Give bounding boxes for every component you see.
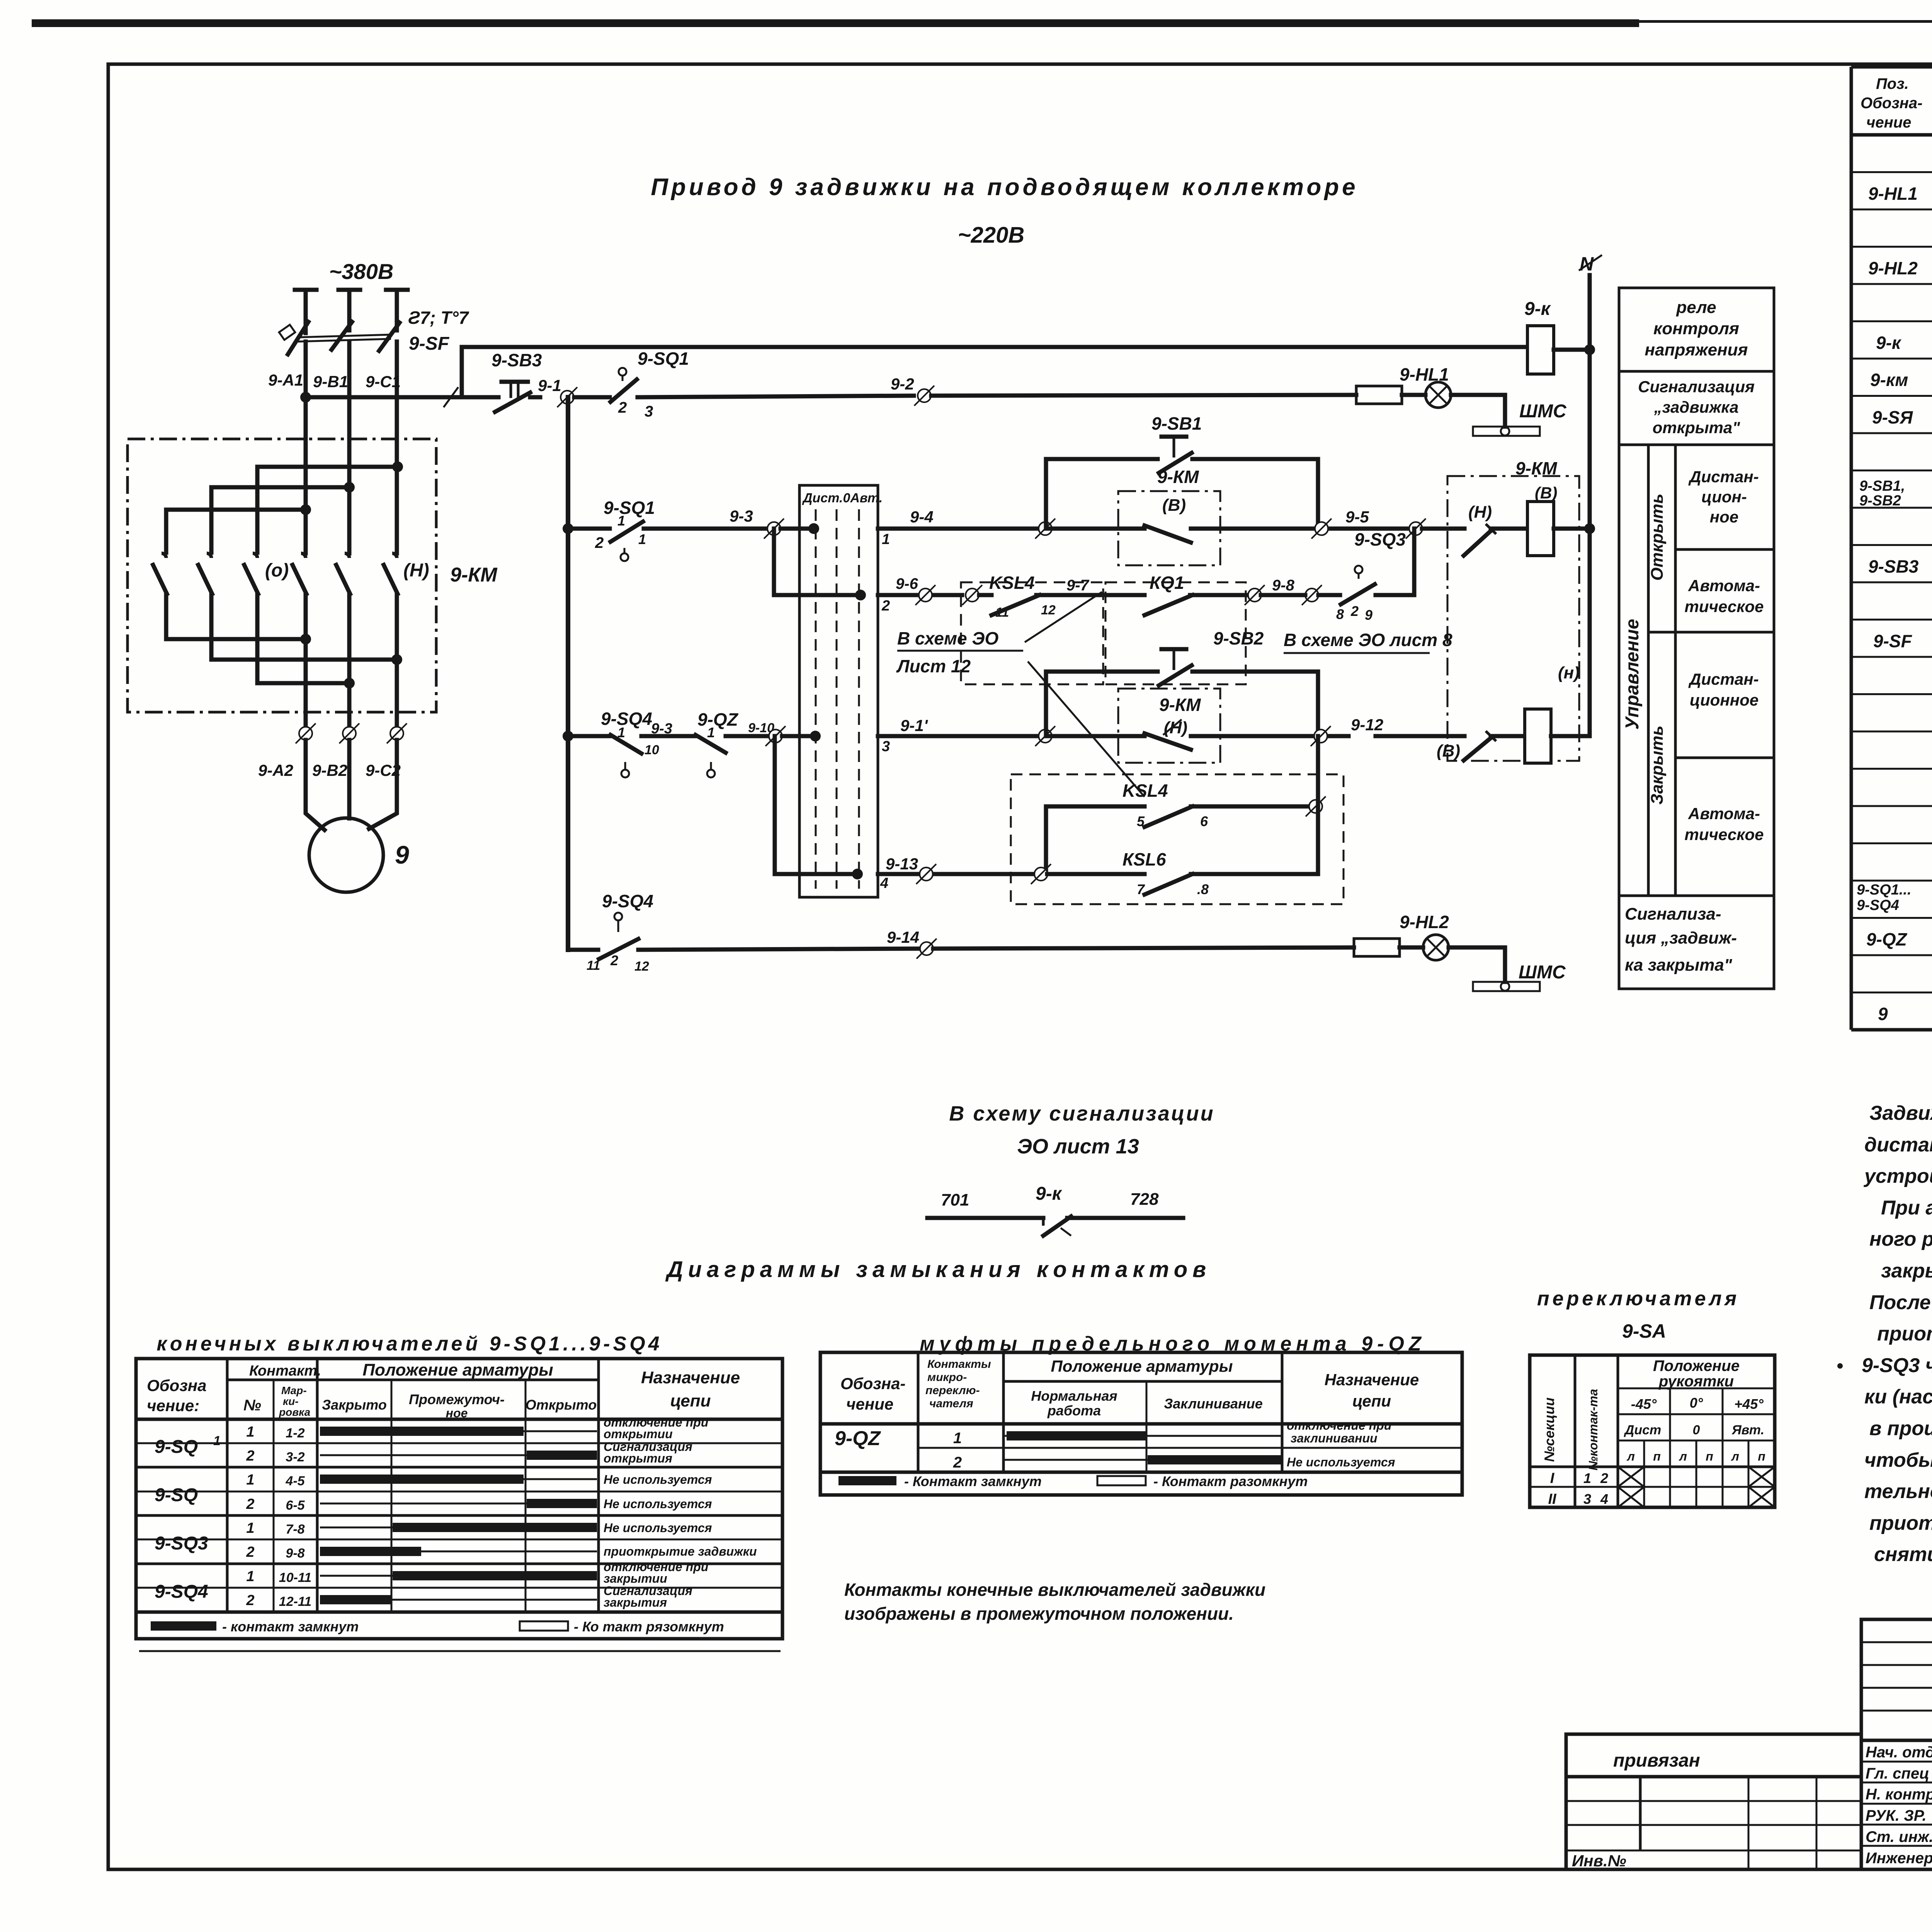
svg-text:9-В1: 9-В1 [313, 372, 348, 391]
svg-text:открыта": открыта" [1653, 418, 1741, 437]
svg-text:2: 2 [246, 1448, 254, 1464]
svg-text:конечных выключателей 9-SQ1..: конечных выключателей 9-SQ1...9-SQ4 [156, 1333, 662, 1355]
wire phase B below breaker [347, 342, 352, 553]
closed-contact bars [320, 1427, 524, 1436]
svg-text:л: л [1679, 1449, 1687, 1463]
wire 9-SB1 bypass top [1046, 457, 1158, 461]
svg-text:ки-: ки- [283, 1395, 299, 1407]
svg-text:1-2: 1-2 [286, 1426, 304, 1440]
svg-text:9-А2: 9-А2 [258, 761, 293, 779]
svg-text:9-7: 9-7 [1066, 577, 1090, 594]
svg-text:- контакт замкнут: - контакт замкнут [222, 1619, 359, 1634]
svg-text:После откачки стоков из пр: После откачки стоков из приемного резерв… [1869, 1291, 1932, 1314]
svg-text:9-1: 9-1 [538, 376, 561, 395]
svg-text:ШМС: ШМС [1519, 962, 1566, 983]
svg-text:9-SQ: 9-SQ [155, 1437, 198, 1457]
svg-text:Контакт.: Контакт. [249, 1363, 321, 1379]
svg-text:9-к: 9-к [1876, 333, 1902, 353]
svg-text:№контак-та: №контак-та [1586, 1389, 1600, 1470]
svg-text:КSL6: КSL6 [1122, 849, 1166, 869]
svg-text:чение: чение [1866, 114, 1911, 131]
svg-text:Заклинивание: Заклинивание [1164, 1396, 1262, 1412]
svg-text:заклинивании: заклинивании [1291, 1431, 1378, 1445]
svg-text:Явт.: Явт. [1731, 1423, 1764, 1437]
svg-text:9-1': 9-1' [900, 716, 929, 735]
contactor 9-KM contacts (o) and (N) [162, 553, 166, 558]
svg-text:п: п [1706, 1449, 1713, 1463]
ballast resistor for 9-HL2 [1354, 939, 1400, 956]
wire (o)-pole1 bottom to phase A [166, 594, 306, 639]
svg-text:чение:: чение: [147, 1396, 199, 1415]
wire (o)-pole3 bottom to phase B [257, 594, 349, 683]
legend closed/open [151, 1621, 216, 1631]
selector switch 9-SA box [799, 485, 878, 897]
svg-text:2: 2 [595, 534, 604, 551]
svg-text:в процессе наладки и экспл: в процессе наладки и эксплуатации таким … [1869, 1417, 1932, 1440]
svg-text:- Ко такт рязомкнут: - Ко такт рязомкнут [574, 1619, 724, 1634]
svg-text:Промежуточ-: Промежуточ- [409, 1391, 505, 1407]
svg-text:микро-: микро- [927, 1371, 967, 1384]
svg-text:701: 701 [941, 1190, 969, 1209]
svg-text:№: № [243, 1397, 261, 1414]
motor 9 [309, 818, 383, 892]
svg-text:9-SQ4: 9-SQ4 [1857, 897, 1899, 913]
svg-text:„задвижка: „задвижка [1654, 398, 1739, 416]
svg-text:II: II [1548, 1491, 1557, 1507]
wire row3 [568, 734, 610, 738]
svg-text:привязан: привязан [1613, 1750, 1700, 1771]
svg-text:9-КМ: 9-КМ [1157, 467, 1199, 487]
svg-text:9-SQ4: 9-SQ4 [601, 709, 652, 729]
svg-text:Закрыто: Закрыто [322, 1397, 387, 1413]
svg-text:(о): (о) [265, 560, 289, 581]
svg-text:7-8: 7-8 [286, 1522, 304, 1537]
svg-text:2: 2 [246, 1592, 254, 1609]
svg-text:контроля: контроля [1653, 319, 1739, 338]
svg-text:Контакты конечные выключател: Контакты конечные выключателей задвижки [844, 1580, 1265, 1600]
svg-text:1: 1 [707, 724, 715, 740]
wire phase A through (N)-pole [304, 594, 308, 733]
svg-text:Гл. спец: Гл. спец [1866, 1765, 1929, 1782]
svg-text:9-SЯ: 9-SЯ [1872, 407, 1913, 427]
contactor block 9-KM dash-dot box [1447, 476, 1579, 761]
wire riser right KSL4 [1316, 736, 1320, 874]
svg-text:9-А1: 9-А1 [268, 371, 303, 389]
svg-text:цепи: цепи [1352, 1392, 1391, 1410]
svg-text:При автоматическом управлени: При автоматическом управлении вслучае пе… [1881, 1197, 1932, 1219]
svg-text:цепи: цепи [670, 1391, 711, 1410]
node junction A top [300, 504, 311, 515]
svg-text:ное: ное [1710, 508, 1738, 526]
svg-text:1: 1 [246, 1568, 254, 1585]
wire row5 (9-14) [568, 948, 598, 952]
svg-text:2: 2 [1350, 603, 1359, 619]
svg-text:9-2: 9-2 [891, 375, 914, 393]
svg-text:Дист: Дист [1624, 1423, 1661, 1437]
svg-text:рукоятки: рукоятки [1658, 1373, 1734, 1390]
svg-text:9-к: 9-к [1524, 299, 1551, 319]
svg-text:~220В: ~220В [958, 223, 1025, 248]
svg-text:приоткрытие задвижки: приоткрытие задвижки [604, 1544, 757, 1558]
svg-text:N: N [1580, 253, 1594, 275]
svg-text:9-SQ3: 9-SQ3 [155, 1533, 208, 1554]
limit switch diagram table [136, 1359, 782, 1639]
node 9-SA contact IV [852, 869, 863, 879]
wire riser row2 to row1 [1412, 529, 1417, 595]
svg-text:Назначение: Назначение [641, 1368, 740, 1387]
wire phase C below breaker [395, 342, 399, 553]
leader lines [1025, 592, 1102, 642]
svg-text:12: 12 [634, 959, 649, 974]
wire rail to relay 9-K [462, 345, 1527, 349]
svg-text:9-НL2: 9-НL2 [1400, 912, 1449, 932]
svg-text:тическое: тическое [1684, 597, 1764, 616]
svg-text:ровка: ровка [279, 1406, 310, 1418]
svg-text:9-12: 9-12 [1351, 716, 1383, 734]
svg-text:9-SF: 9-SF [1873, 631, 1913, 651]
svg-text:Закрыть: Закрыть [1648, 726, 1667, 805]
wire drop row3 to row4 [773, 736, 777, 874]
svg-text:отключение при: отключение при [1287, 1418, 1391, 1432]
svg-text:9-3: 9-3 [651, 721, 672, 737]
wire row1 through aux contact [1050, 527, 1145, 531]
svg-text:9-SB3: 9-SB3 [1868, 556, 1919, 577]
svg-text:1: 1 [213, 1434, 221, 1448]
svg-text:реле: реле [1676, 298, 1716, 317]
svg-text:0°: 0° [1690, 1395, 1703, 1411]
wire jumper C to (o)-pole3 [257, 467, 399, 553]
svg-text:2: 2 [618, 399, 627, 416]
svg-text:дистанционное с помощью кно: дистанционное с помощью кнопок 9-SВ1...9… [1864, 1134, 1932, 1156]
svg-text:1: 1 [246, 1424, 254, 1440]
svg-text:9-В2: 9-В2 [312, 761, 347, 779]
svg-text:.8: .8 [1197, 881, 1209, 897]
node 9-SA contact II [855, 590, 866, 600]
svg-text:9-SQ3: 9-SQ3 [1354, 529, 1406, 549]
svg-text:3-2: 3-2 [286, 1450, 304, 1464]
svg-text:1: 1 [246, 1520, 254, 1536]
svg-text:Назначение: Назначение [1325, 1371, 1419, 1389]
wire jumper B to (o)-pole2 [211, 487, 351, 553]
svg-text:чателя: чателя [929, 1397, 973, 1410]
wire (o)-pole2 bottom to phase C [211, 594, 397, 660]
svg-text:KSL4: KSL4 [1122, 781, 1168, 801]
svg-text:Сигнализа-: Сигнализа- [1625, 905, 1721, 923]
svg-text:9-SB3: 9-SB3 [492, 350, 542, 370]
svg-text:9-к: 9-к [1036, 1184, 1063, 1204]
svg-text:6: 6 [1200, 813, 1208, 829]
svg-text:9-SQ1...: 9-SQ1... [1857, 882, 1912, 898]
svg-text:2: 2 [953, 1454, 962, 1471]
svg-text:Диаграммы замыкания кон: Диаграммы замыкания контактов [665, 1257, 1211, 1282]
svg-text:-45°: -45° [1631, 1396, 1657, 1412]
svg-text:9-8: 9-8 [1272, 577, 1295, 594]
svg-text:п: п [1653, 1449, 1661, 1463]
svg-text:11: 11 [587, 958, 600, 973]
node row1 tap [563, 523, 573, 534]
cable marker 9-1 [557, 387, 577, 407]
svg-text:Дистан-: Дистан- [1688, 468, 1759, 486]
svg-text:1: 1 [246, 1472, 254, 1488]
breaker 9-SF [288, 322, 308, 354]
svg-text:9-SB1: 9-SB1 [1151, 413, 1202, 434]
svg-text:Привод 9 задвижки на подводя: Привод 9 задвижки на подводящем коллекто… [651, 174, 1358, 201]
wire 9-SB2 bypass riser right [1316, 672, 1320, 736]
svg-text:1: 1 [882, 531, 890, 548]
svg-text:9: 9 [1365, 607, 1372, 623]
wire 9-SB2 bypass top [1046, 670, 1158, 674]
svg-text:9-км: 9-км [1870, 370, 1908, 390]
node 9-SA contact I [808, 523, 819, 534]
cable markers 9-A2 9-B2 9-C2 [296, 723, 316, 743]
svg-text:ки (настройка конечного выкл: ки (настройка конечного выключателя 9-SQ… [1864, 1386, 1932, 1408]
wire control bus [566, 397, 570, 950]
wire row1 [568, 527, 610, 531]
svg-text:устройства и автоматическо: устройства и автоматическое. [1863, 1165, 1932, 1187]
svg-text:ЭО лист 13: ЭО лист 13 [1017, 1135, 1139, 1158]
svg-text:ного резервуара или затопле: ного резервуара или затоплении машзала з… [1869, 1228, 1932, 1250]
svg-text:ка закрыта": ка закрыта" [1625, 956, 1733, 975]
relay contacts KSL4/KSL6 box [1011, 774, 1344, 904]
svg-text:9-SB1,: 9-SB1, [1859, 478, 1905, 494]
svg-text:Ƨ7; Т°7: Ƨ7; Т°7 [408, 308, 469, 328]
svg-text:2: 2 [246, 1496, 254, 1512]
svg-text:9-HL2: 9-HL2 [1868, 258, 1918, 278]
svg-text:закрывается.: закрывается. [1881, 1260, 1932, 1282]
svg-text:Н. контр: Н. контр [1866, 1786, 1932, 1803]
svg-text:9-8: 9-8 [286, 1546, 304, 1561]
wire row3 through aux contact [1050, 734, 1145, 738]
svg-text:Обозна: Обозна [147, 1376, 207, 1395]
wire 9-SB2 bypass riser left [1044, 672, 1048, 736]
svg-text:2: 2 [246, 1544, 254, 1560]
svg-text:л: л [1626, 1449, 1635, 1463]
svg-text:ное: ное [446, 1406, 468, 1420]
svg-text:3: 3 [882, 738, 890, 755]
svg-text:(В): (В) [1162, 496, 1186, 515]
svg-text:Не используется: Не используется [604, 1473, 712, 1486]
svg-text:Не используется: Не используется [604, 1497, 712, 1511]
svg-text:1: 1 [638, 531, 646, 547]
svg-text:(Н): (Н) [1468, 503, 1492, 522]
pushbutton 9-SB2 [1162, 647, 1186, 651]
svg-text:- Контакт замкнут: - Контакт замкнут [904, 1473, 1042, 1489]
svg-text:9-SQ: 9-SQ [155, 1485, 198, 1505]
svg-text:тельности одного насоса. В: тельности одного насоса. В случае затопл… [1864, 1480, 1932, 1503]
wire KSL4 branch [1044, 806, 1048, 874]
svg-text:9-6: 9-6 [896, 575, 918, 592]
svg-text:цион-: цион- [1701, 488, 1747, 506]
svg-text:№секции: №секции [1541, 1398, 1557, 1462]
svg-text:Не используется: Не используется [604, 1521, 712, 1535]
svg-text:Дист.0Авт.: Дист.0Авт. [802, 491, 883, 505]
title block [1861, 1619, 1932, 1869]
wire to limit switch [574, 395, 610, 400]
svg-text:2: 2 [610, 952, 618, 968]
svg-text:~380В: ~380В [329, 259, 394, 284]
svg-text:ШМС: ШМС [1519, 401, 1567, 422]
svg-text:4-5: 4-5 [285, 1474, 305, 1488]
svg-text:переклю-: переклю- [925, 1384, 980, 1397]
svg-text:9-SQ1: 9-SQ1 [638, 349, 689, 369]
svg-text:В схему сигнализации: В схему сигнализации [949, 1102, 1214, 1125]
svg-text:(н): (н) [1558, 663, 1580, 682]
svg-text:8: 8 [1336, 606, 1344, 622]
node feed junction on phase A [300, 392, 311, 403]
svg-text:10-11: 10-11 [279, 1570, 311, 1585]
svg-text:изображены в промежуточном п: изображены в промежуточном положении. [844, 1604, 1234, 1624]
svg-text:работа: работа [1047, 1403, 1101, 1418]
svg-text:9-КМ: 9-КМ [1159, 695, 1201, 715]
node junction B top [344, 482, 355, 493]
wire motor leads [306, 740, 325, 830]
svg-text:2: 2 [1600, 1470, 1608, 1486]
svg-text:9-SQ3 частично открывается.: 9-SQ3 частично открывается. Величина при… [1862, 1354, 1932, 1377]
svg-text:1: 1 [1583, 1470, 1591, 1486]
wire phase A below breaker [304, 342, 308, 553]
contactor 9-KM power block outline [128, 439, 436, 712]
svg-text:0: 0 [1693, 1423, 1700, 1437]
svg-text:Лист 12: Лист 12 [896, 656, 971, 676]
svg-text:9: 9 [1878, 1004, 1888, 1024]
svg-text:Положение арматуры: Положение арматуры [1051, 1357, 1233, 1375]
svg-text:2: 2 [881, 598, 890, 614]
node N junction [1584, 344, 1595, 355]
PARTS LIST TABLE [1851, 67, 1932, 1030]
node junction C bottom [391, 654, 402, 665]
svg-text:9-SQ4: 9-SQ4 [602, 891, 653, 911]
node row3 tap [563, 731, 573, 742]
wire coil to N [1554, 348, 1590, 352]
svg-text:7: 7 [1137, 881, 1145, 897]
relay contact KQ1 box [1105, 582, 1246, 684]
svg-text:9-13: 9-13 [886, 855, 918, 873]
wire jumper A to (o)-pole1 [166, 510, 306, 553]
svg-text:Автома-: Автома- [1688, 577, 1760, 595]
svg-text:9: 9 [395, 840, 409, 869]
node junction C top [392, 461, 403, 472]
node N row1 [1584, 523, 1595, 534]
svg-text:(Н): (Н) [403, 560, 429, 581]
svg-text:чение: чение [846, 1395, 893, 1413]
svg-text:9-4: 9-4 [910, 508, 934, 526]
svg-text:9-SQ1: 9-SQ1 [604, 498, 655, 518]
svg-text:5: 5 [1137, 813, 1145, 829]
svg-text:чтобы обеспечить приток сто: чтобы обеспечить приток стоков в количес… [1864, 1449, 1932, 1471]
svg-text:открытия: открытия [604, 1451, 672, 1465]
svg-text:В схеме ЭО: В схеме ЭО [897, 628, 998, 648]
wire N line [1588, 275, 1592, 736]
svg-text:п: п [1758, 1449, 1765, 1463]
wire 9-SB1 bypass riser left [1044, 459, 1048, 529]
svg-text:6-5: 6-5 [286, 1498, 305, 1513]
svg-text:открытии: открытии [604, 1427, 673, 1441]
wire lamp to SHMS bus [1451, 395, 1505, 427]
svg-text:снятии блокировки.: снятии блокировки. [1874, 1543, 1932, 1566]
node bypass rejoin [1318, 527, 1406, 531]
svg-text:РУК. ЗР.: РУК. ЗР. [1866, 1807, 1927, 1824]
svg-text:Положение арматуры: Положение арматуры [362, 1361, 553, 1379]
svg-text:12-11: 12-11 [279, 1594, 311, 1609]
svg-text:Нормальная: Нормальная [1031, 1388, 1117, 1404]
node junction B bottom [344, 678, 355, 689]
svg-text:3: 3 [1583, 1491, 1591, 1507]
svg-text:3: 3 [645, 403, 653, 420]
auxiliary contact 9-KM (B) box [1118, 491, 1220, 565]
svg-text:Управление: Управление [1622, 619, 1643, 730]
svg-text:Открыто: Открыто [526, 1397, 597, 1413]
wire lamp to lower SHMS bus [1449, 947, 1505, 982]
svg-text:9-5: 9-5 [1345, 508, 1369, 526]
svg-text:9-QZ: 9-QZ [697, 709, 739, 730]
svg-text:4: 4 [1600, 1491, 1608, 1507]
svg-text:Поз.: Поз. [1876, 75, 1909, 92]
svg-text:1: 1 [953, 1430, 962, 1447]
auxiliary contact 9-KM (N) box [1118, 689, 1220, 763]
svg-text:приоткрытие задвижки возм: приоткрытие задвижки возможно только при [1869, 1512, 1932, 1534]
wire main feed [306, 395, 498, 400]
svg-text:Задвижка имеет два вида управл: Задвижка имеет два вида управления, выби… [1869, 1102, 1932, 1124]
svg-text:KSL4: KSL4 [989, 573, 1035, 593]
svg-text:Инженер: Инженер [1866, 1850, 1932, 1867]
svg-text:Не используется: Не используется [1287, 1455, 1395, 1469]
svg-text:12: 12 [1041, 603, 1056, 617]
wire phase B through (N)-pole [347, 594, 352, 733]
svg-text:9-QZ: 9-QZ [835, 1427, 881, 1450]
svg-text:Контакты: Контакты [927, 1358, 991, 1371]
relay contact KSL4 (11-12) box [961, 582, 1103, 684]
svg-text:9-КМ: 9-КМ [450, 564, 498, 586]
node 9-SA contact III [810, 731, 821, 742]
svg-text:ция „задвиж-: ция „задвиж- [1625, 929, 1737, 947]
svg-text:1: 1 [617, 513, 625, 529]
ballast resistor for 9-HL1 [1356, 386, 1402, 404]
svg-text:+45°: +45° [1734, 1396, 1764, 1412]
wire 9-SB1 bypass riser right [1316, 459, 1320, 529]
svg-text:Дистан-: Дистан- [1688, 670, 1759, 688]
svg-text:728: 728 [1130, 1190, 1159, 1209]
wire phase C through (N)-pole [395, 594, 399, 733]
svg-text:В схеме ЭО лист 8: В схеме ЭО лист 8 [1284, 630, 1452, 650]
svg-text:Мар-: Мар- [281, 1384, 307, 1396]
svg-text:тическое: тическое [1684, 825, 1764, 844]
svg-text:9-HL1: 9-HL1 [1868, 184, 1918, 204]
svg-text:I: I [1550, 1470, 1555, 1486]
svg-text:(Н): (Н) [1164, 718, 1187, 737]
svg-text:9-С1: 9-С1 [366, 372, 401, 391]
attachment block [1566, 1734, 1861, 1869]
crossed cells [1618, 1467, 1644, 1487]
svg-text:приоткрытия задвижка с помощ: приоткрытия задвижка с помощью конечного… [1877, 1323, 1932, 1345]
svg-text:Ст. инж.: Ст. инж. [1866, 1828, 1932, 1845]
svg-text:9-SF: 9-SF [409, 333, 450, 354]
svg-text:Обозна-: Обозна- [1861, 95, 1922, 112]
svg-text:9-SА: 9-SА [1622, 1320, 1666, 1342]
svg-text:Автома-: Автома- [1688, 804, 1760, 823]
svg-text:Обозна-: Обозна- [840, 1374, 905, 1393]
svg-text:9-SB2: 9-SB2 [1859, 493, 1901, 509]
svg-text:Положение: Положение [1653, 1357, 1740, 1374]
function table [1619, 288, 1774, 989]
svg-text:л: л [1731, 1449, 1739, 1463]
svg-text:Инв.№: Инв.№ [1572, 1852, 1626, 1870]
svg-text:- Контакт разомкнут: - Контакт разомкнут [1153, 1473, 1308, 1489]
svg-text:(В): (В) [1535, 484, 1557, 502]
svg-text:напряжения: напряжения [1645, 340, 1748, 359]
svg-text:9-SQ4: 9-SQ4 [155, 1582, 208, 1602]
svg-text:Сигнализация: Сигнализация [1638, 378, 1755, 396]
svg-text:9-QZ: 9-QZ [1866, 929, 1908, 949]
